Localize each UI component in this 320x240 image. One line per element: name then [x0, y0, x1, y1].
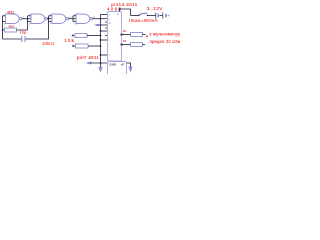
wire R1 right to node B — [17, 29, 28, 31]
switch S1 — [139, 13, 148, 15]
wire R3 right to rail — [88, 45, 101, 47]
IC box 4093 — [108, 12, 122, 62]
R2 left terminal cross — [72, 35, 74, 37]
power pin top — [120, 9, 131, 16]
node C junction — [48, 18, 50, 20]
wire G4 out to IC box pins — [92, 15, 107, 19]
pin numbers gate U1A — [3, 15, 24, 26]
pin wire y55 — [101, 54, 108, 56]
R4 left terminal cross — [120, 34, 122, 36]
resistor R5 — [131, 43, 143, 47]
wire C1 left — [3, 38, 22, 40]
wire C1 right to node C — [26, 16, 49, 39]
IC pin numbers inside — [109, 15, 112, 58]
svg-text:Imax=90mA: Imax=90mA — [129, 18, 158, 23]
wire to switch — [131, 15, 139, 17]
svg-text:4M7: 4M7 — [8, 25, 14, 29]
arrow to pin (left arrow upper) — [97, 24, 108, 26]
pin numbers gate U1C — [50, 15, 72, 26]
gate U1D — [76, 14, 92, 24]
svg-text:10kHz: 10kHz — [42, 41, 56, 46]
pin numbers gate U1B — [29, 15, 50, 26]
R4 wire from IC — [122, 34, 131, 36]
resistor R1 — [5, 28, 17, 32]
gate U1B — [31, 14, 47, 24]
R5 left terminal cross — [120, 44, 122, 46]
R4 output dot — [146, 35, 148, 37]
wire R5 right — [143, 44, 146, 46]
bottom wire to power block — [91, 62, 108, 64]
pin wire y31 — [101, 30, 108, 32]
resistor R4 — [131, 33, 143, 37]
svg-text:3..12V: 3..12V — [147, 6, 163, 11]
svg-text:2k: 2k — [123, 29, 127, 33]
wire R2 right to rail — [87, 35, 101, 37]
wire G1 out to G2 in — [22, 18, 31, 20]
capacitor C1 — [22, 36, 25, 42]
battery + mark — [168, 15, 170, 17]
R3 left terminal cross — [72, 45, 74, 47]
wire R4 right — [143, 34, 146, 36]
pin numbers gate U1D — [74, 15, 96, 26]
ground arrow right — [127, 63, 131, 67]
power block box — [108, 62, 127, 78]
spare IC pin stubs — [105, 22, 108, 36]
R5 wire from IC — [122, 44, 131, 46]
wire G2 out to G3 in — [47, 18, 52, 20]
node B vertical wire down to R1 — [28, 16, 32, 30]
wire G3 out to G4 in — [68, 18, 76, 20]
node C input stubs G3 — [49, 16, 53, 22]
pin wire y40 — [101, 39, 108, 41]
svg-text:GND: GND — [109, 63, 117, 67]
G4 input tie — [73, 16, 76, 22]
vertical rail — [100, 19, 102, 63]
node B junction — [27, 18, 29, 20]
gate U1A (NAND inverter) — [6, 14, 22, 24]
svg-text:+E: +E — [120, 63, 124, 67]
junction R1 left — [2, 29, 4, 31]
svg-text:к мультиметру: к мультиметру — [150, 31, 181, 36]
svg-text:10p: 10p — [20, 31, 28, 35]
svg-text:pin7 4011: pin7 4011 — [77, 55, 99, 60]
ground arrow left — [100, 63, 102, 67]
svg-text:2k: 2k — [123, 39, 127, 43]
gate U1C — [52, 14, 68, 24]
battery B1 — [156, 13, 166, 19]
resistor R2 — [75, 34, 87, 38]
svg-text:pin14 4011: pin14 4011 — [111, 2, 137, 7]
resistor R3 — [76, 44, 89, 48]
wire switch to battery — [148, 15, 156, 17]
svg-text:10k: 10k — [64, 38, 75, 43]
junction G4 out — [100, 18, 102, 20]
svg-text:предел 20 кОм: предел 20 кОм — [150, 39, 181, 44]
node A vertical wire (G1 inputs tie, down to C1) — [3, 16, 6, 39]
left arrow pin7 — [86, 62, 92, 65]
